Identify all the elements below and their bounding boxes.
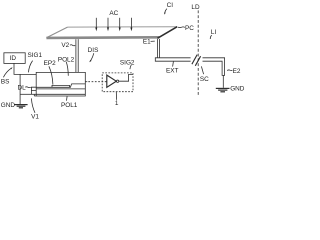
label 1 (115, 100, 119, 107)
box ID (4, 53, 25, 64)
svg-text:SC: SC (200, 76, 209, 83)
svg-text:EP2: EP2 (44, 60, 57, 67)
pointer V1 (31, 98, 35, 112)
svg-text:GND: GND (1, 102, 16, 109)
label E1 (143, 39, 151, 46)
label V1 (31, 113, 39, 120)
label SIG1 (28, 52, 43, 59)
pointer LI (210, 35, 211, 39)
tab DL electrode (31, 87, 36, 94)
transmission line EXT right segment with E2 bend (203, 58, 225, 76)
via E1 left line (157, 39, 159, 58)
label E2 (233, 68, 241, 75)
pointer E1 dash (151, 40, 155, 42)
label DIS (88, 47, 99, 54)
label BS (1, 78, 10, 85)
label AC (109, 10, 118, 17)
label GND right (230, 86, 245, 93)
svg-text:POL1: POL1 (61, 102, 78, 109)
pointer DIS arrow (89, 53, 94, 62)
arrow AC 4 (130, 18, 132, 32)
dashed box amplifier 1 (102, 73, 133, 92)
svg-text:SIG1: SIG1 (28, 52, 43, 59)
pointer CI (164, 9, 167, 15)
wire amplifier output (119, 74, 133, 81)
label GND left (1, 102, 16, 109)
svg-text:CI: CI (167, 2, 174, 9)
label PC (185, 25, 194, 32)
plate CI far edge (68, 26, 178, 28)
plate CI right corner thick edge PC (157, 27, 177, 39)
device electrode EP2 box (52, 85, 70, 87)
via V2 right line (77, 39, 79, 72)
pointer PC squiggle (178, 26, 185, 29)
pointer SC (201, 66, 203, 74)
svg-text:BS: BS (1, 78, 10, 85)
svg-text:SIG2: SIG2 (120, 60, 135, 67)
svg-text:1: 1 (115, 100, 119, 107)
pointer POL2 (66, 62, 68, 76)
device layer line POL1 top (36, 88, 85, 90)
pointer 1 (115, 92, 117, 100)
dashed line LD (197, 10, 199, 96)
svg-text:ID: ID (10, 55, 17, 62)
transmission line EXT left segment (155, 58, 190, 61)
wire dashed to amplifier (88, 81, 107, 83)
label POL2 (58, 56, 75, 63)
label POL1 (61, 102, 78, 109)
label SIG2 (120, 60, 135, 67)
device body outer rectangle (34, 72, 85, 96)
wire E2 to ground (222, 75, 224, 87)
ground symbol right (216, 88, 230, 91)
pointer EXT (172, 62, 175, 67)
pointer EP2 (49, 66, 53, 84)
ground symbol left (14, 105, 27, 108)
label SC (200, 76, 209, 83)
svg-text:GND: GND (230, 86, 245, 93)
arrow AC 3 (119, 18, 121, 32)
pointer SIG2 (130, 65, 131, 69)
pointer POL1 (66, 96, 69, 101)
inverter bubble (116, 80, 118, 82)
via E1 right line (159, 39, 161, 58)
svg-text:LD: LD (191, 4, 200, 11)
plate CI front face band (46, 36, 159, 39)
wire ID return to ground (19, 75, 21, 105)
label EP2 (44, 60, 57, 67)
pointer DL squiggle (25, 86, 31, 89)
label LI (211, 29, 217, 36)
label LD (191, 4, 200, 11)
svg-text:EXT: EXT (166, 68, 179, 75)
pointer BS arrow (3, 67, 12, 77)
svg-text:AC: AC (109, 10, 118, 17)
label EXT (166, 68, 179, 75)
svg-text:V2: V2 (61, 42, 69, 49)
break symbol SC slash 1 (192, 55, 197, 65)
arrow AC 2 (107, 18, 109, 32)
pointer E2 dash (227, 69, 232, 72)
svg-text:E2: E2 (233, 68, 241, 75)
svg-text:DIS: DIS (88, 47, 99, 54)
pointer V2 squiggle (70, 44, 75, 47)
via V2 left line (75, 39, 77, 72)
svg-text:E1: E1 (143, 39, 151, 46)
label ID (10, 55, 17, 62)
svg-text:V1: V1 (31, 113, 39, 120)
svg-text:DL: DL (18, 85, 27, 92)
device electrode DL line (36, 84, 85, 87)
pointer SIG1 (29, 61, 33, 73)
wire branch to V1 electrode (20, 93, 34, 95)
device electrode V1 line (34, 94, 85, 96)
break symbol SC slash 2 (195, 56, 200, 66)
wire SIG1 from ID to device top (14, 63, 36, 74)
plate CI left slant edge (46, 27, 67, 38)
svg-text:LI: LI (211, 29, 217, 36)
wire device output (85, 81, 87, 83)
label V2 (61, 42, 69, 49)
label CI (167, 2, 174, 9)
svg-text:PC: PC (185, 25, 194, 32)
label DL (18, 85, 27, 92)
arrow AC 1 (95, 18, 97, 32)
op-amp inverter triangle (107, 75, 117, 87)
